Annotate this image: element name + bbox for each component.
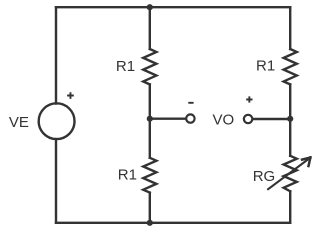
junction: top of middle branch (147, 4, 153, 10)
svg-text:VO: VO (213, 112, 235, 129)
wire: middle branch bottom lead (149, 193, 151, 223)
polarity mark + of source VE (67, 92, 74, 99)
wire: left rail lower segment (55, 139, 57, 223)
wire: bottom rail (56, 222, 290, 224)
polarity mark + of output (246, 96, 252, 102)
terminal: minus output (186, 114, 194, 122)
terminal: plus output (244, 115, 252, 123)
svg-text:R1: R1 (256, 57, 275, 74)
voltage source VE (39, 103, 75, 139)
svg-text:R1: R1 (118, 166, 137, 183)
junction: bottom of middle branch (147, 220, 153, 226)
potentiometer RG arrow head (302, 158, 310, 167)
wire: output minus lead (150, 117, 186, 119)
polarity mark - of output (188, 102, 193, 104)
wire: middle branch top lead (149, 7, 151, 49)
resistor R1 (right branch) (284, 49, 297, 84)
potentiometer RG arrow shaft (268, 159, 309, 190)
junction: right branch output node (287, 116, 293, 122)
wire: right branch top lead (289, 7, 291, 49)
resistor R1 (middle branch, bottom) (143, 158, 156, 193)
wire: left rail upper segment (55, 7, 57, 103)
wire: right branch center segment (289, 84, 291, 155)
wire: top rail (56, 6, 290, 8)
junction: middle branch output node (147, 116, 153, 122)
svg-text:VE: VE (9, 114, 29, 131)
wire: output plus lead (253, 118, 290, 120)
svg-text:RG: RG (253, 168, 276, 185)
wire: right branch bottom lead (289, 191, 291, 223)
resistor R1 (middle branch, top) (143, 49, 156, 84)
potentiometer RG zigzag (284, 156, 297, 192)
svg-text:R1: R1 (116, 58, 135, 75)
wire: middle branch center segment (149, 84, 151, 157)
